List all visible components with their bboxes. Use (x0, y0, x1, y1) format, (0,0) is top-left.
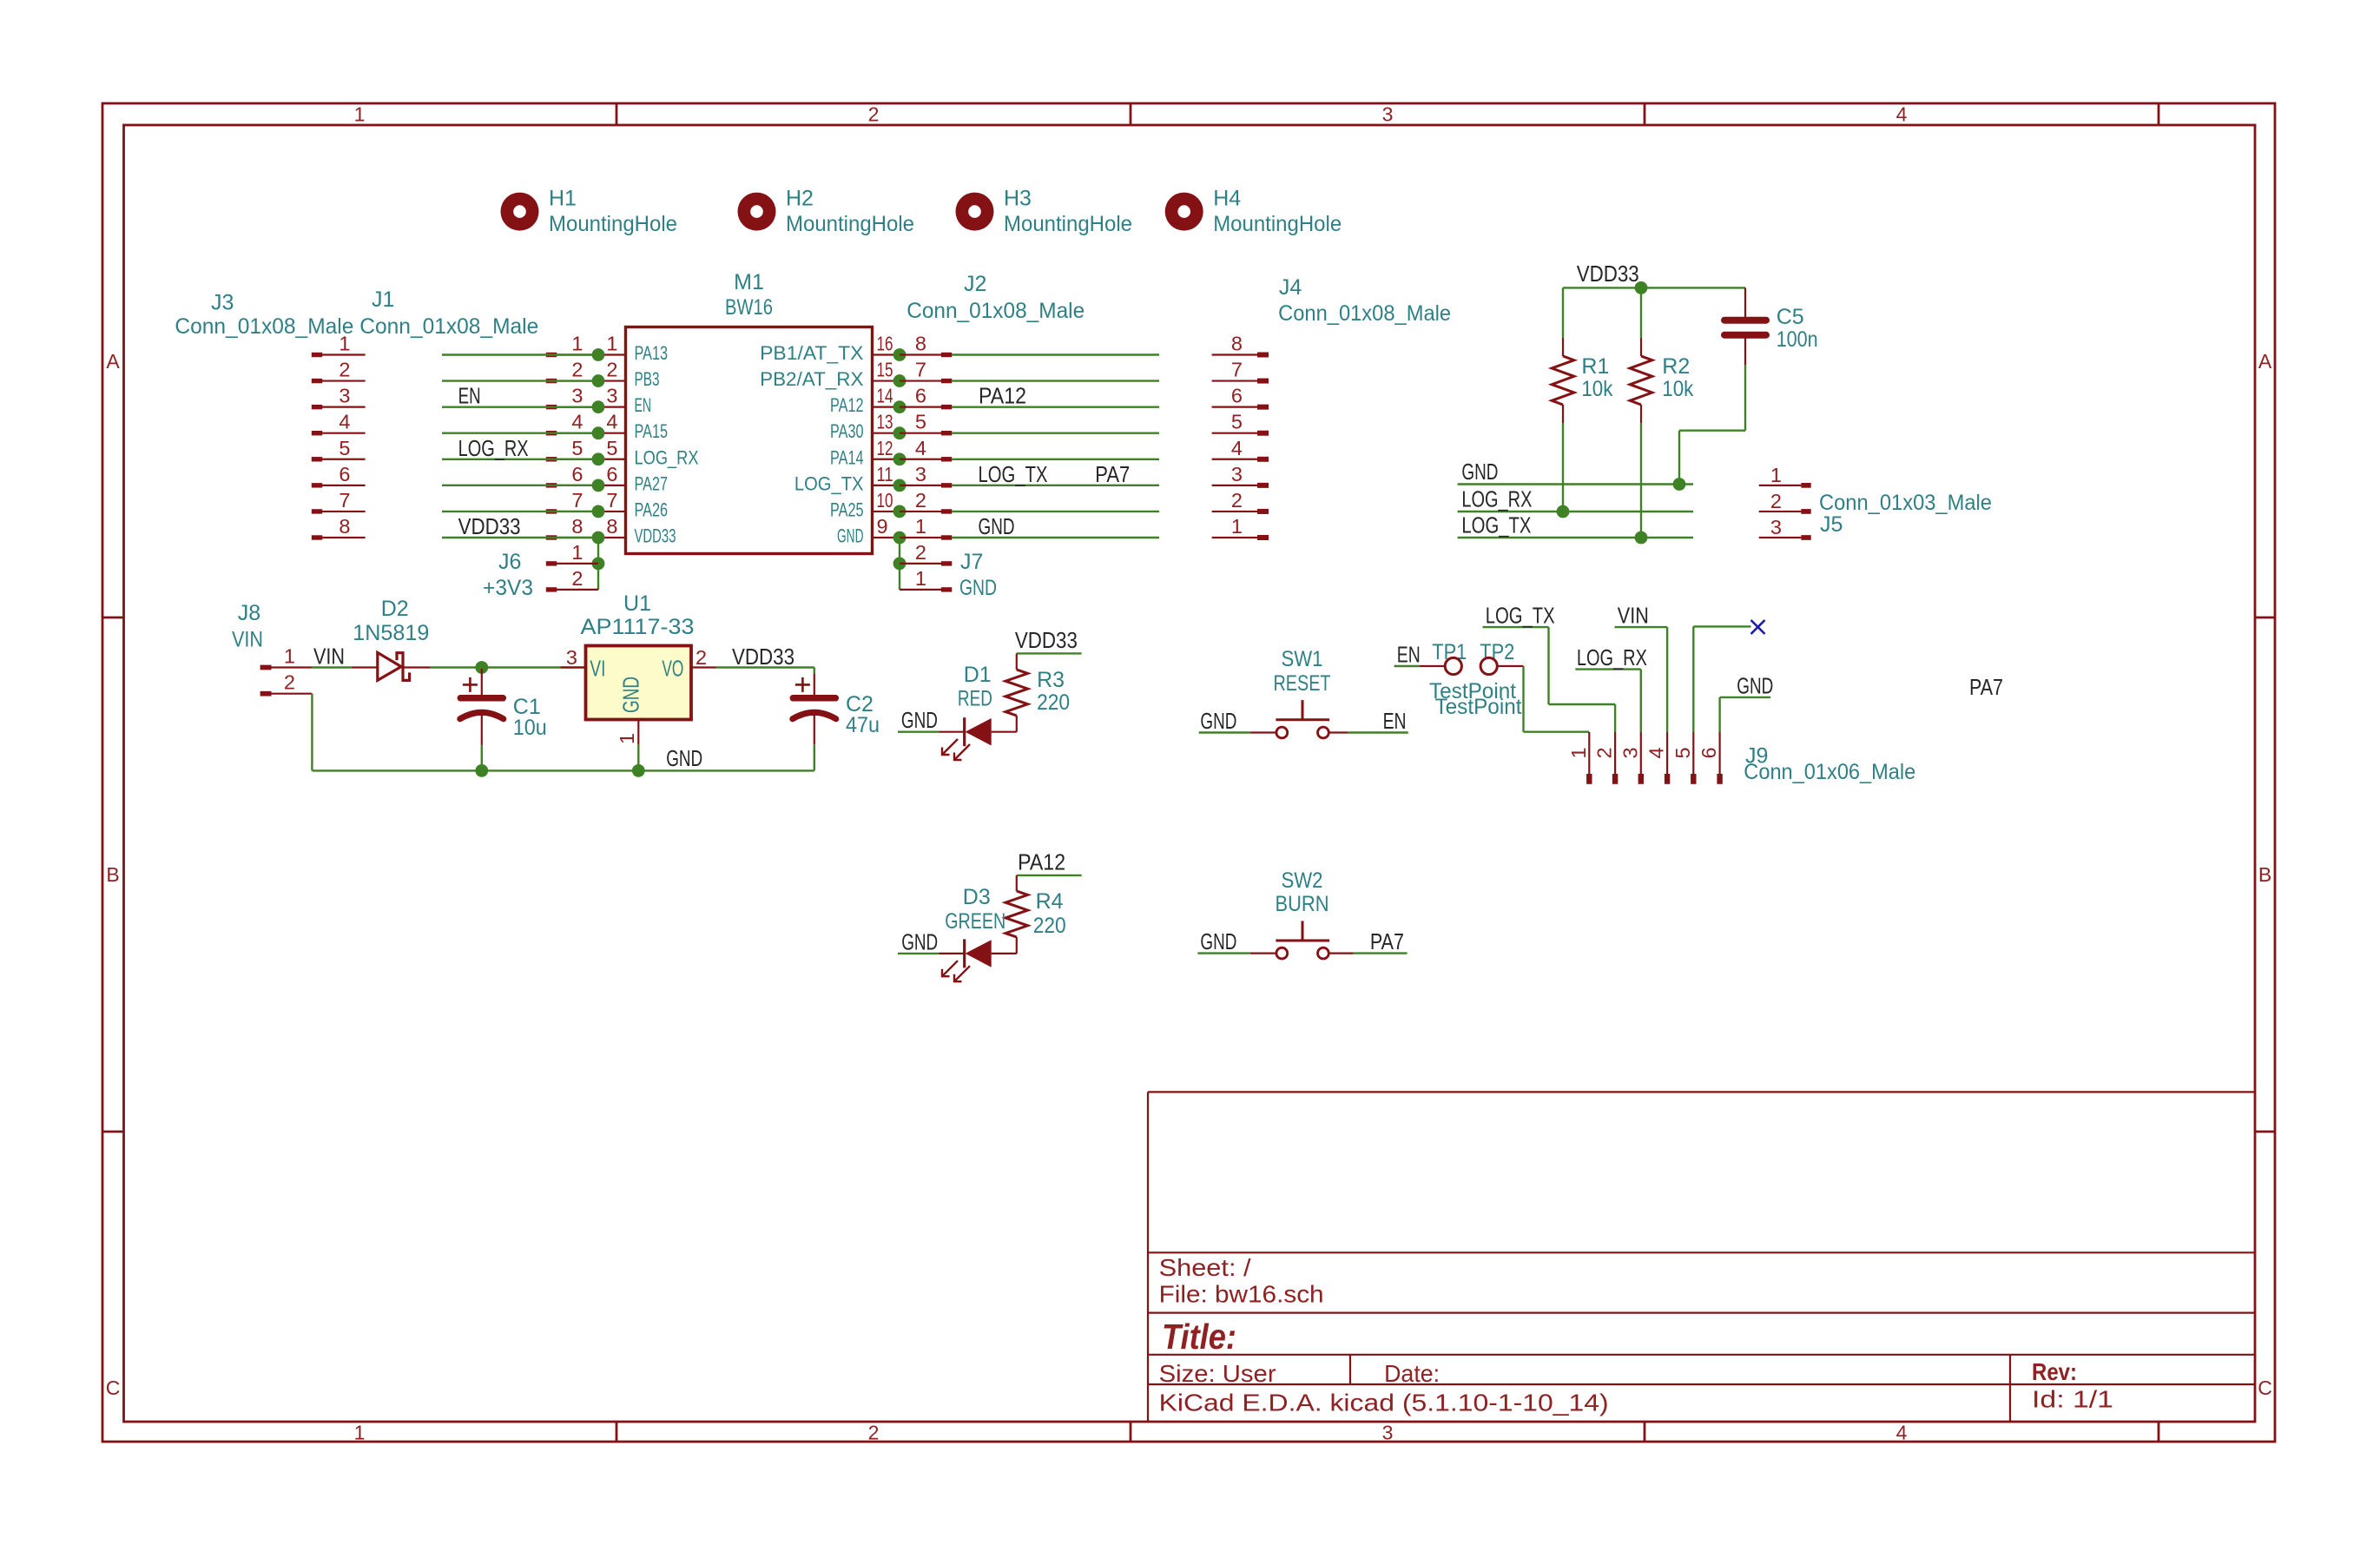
svg-text:1: 1 (1231, 515, 1243, 538)
svg-text:EN: EN (1397, 642, 1421, 668)
svg-text:D1: D1 (964, 663, 992, 687)
svg-text:6: 6 (606, 463, 617, 485)
svg-text:LOG_TX: LOG_TX (794, 472, 864, 494)
svg-text:B: B (106, 863, 119, 886)
wire GND to SW2 (1197, 952, 1249, 954)
svg-text:R3: R3 (1037, 668, 1065, 692)
svg-text:LOG_RX: LOG_RX (635, 446, 699, 468)
wire SW2 to PA7 (1354, 952, 1408, 954)
svg-text:EN: EN (635, 394, 652, 416)
svg-text:2: 2 (915, 541, 926, 564)
svg-text:Conn_01x08_Male: Conn_01x08_Male (907, 299, 1085, 323)
svg-text:4: 4 (1896, 1422, 1908, 1444)
svg-text:Conn_01x08_Male: Conn_01x08_Male (1278, 301, 1451, 326)
connector J8 VIN (232, 601, 312, 697)
svg-text:J3: J3 (211, 291, 234, 315)
svg-text:8: 8 (339, 515, 350, 538)
svg-text:2: 2 (696, 646, 707, 669)
svg-text:2: 2 (1231, 489, 1243, 512)
svg-text:5: 5 (571, 437, 583, 459)
svg-text:J5: J5 (1820, 512, 1843, 537)
svg-text:PA12: PA12 (830, 394, 864, 416)
svg-text:1: 1 (1567, 747, 1590, 758)
switch SW1 RESET (1250, 647, 1348, 738)
connector J5 Conn_01x03_Male (1759, 464, 1992, 540)
svg-text:7: 7 (606, 489, 617, 512)
wire VIN (312, 666, 351, 668)
svg-text:8: 8 (606, 515, 617, 538)
svg-text:Conn_01x08_Male: Conn_01x08_Male (175, 314, 353, 339)
svg-text:H4: H4 (1213, 187, 1241, 211)
mounting hole H1 (501, 187, 678, 236)
svg-text:16: 16 (877, 333, 893, 355)
wire LOG_RX stub (1458, 511, 1693, 512)
capacitor C5 100n (1724, 287, 1818, 430)
svg-text:2: 2 (868, 103, 880, 126)
svg-text:PA12: PA12 (1018, 849, 1065, 875)
svg-text:GND: GND (959, 576, 997, 600)
svg-text:10u: 10u (513, 716, 547, 740)
svg-text:3: 3 (606, 385, 617, 407)
svg-text:1: 1 (606, 333, 617, 355)
svg-text:RED: RED (958, 687, 992, 711)
svg-text:C: C (106, 1377, 121, 1399)
svg-text:A: A (106, 350, 120, 373)
resistor R3 220 (992, 627, 1082, 732)
svg-text:4: 4 (1231, 437, 1243, 459)
svg-text:MountingHole: MountingHole (1004, 212, 1132, 236)
svg-text:6: 6 (915, 385, 926, 407)
svg-text:R2: R2 (1662, 354, 1690, 379)
J3 pins 1-8 (312, 333, 366, 540)
capacitor C2 47u (793, 674, 880, 770)
svg-text:VO: VO (662, 655, 683, 681)
resistor R4 220 (992, 849, 1082, 954)
svg-text:1: 1 (571, 541, 583, 564)
J4 pins 8-1 (1212, 333, 1269, 540)
svg-text:PB2/AT_RX: PB2/AT_RX (760, 368, 864, 390)
svg-text:D3: D3 (963, 885, 991, 909)
svg-text:GND: GND (1737, 672, 1773, 698)
wire GND to SW1 (1199, 731, 1250, 733)
svg-text:2: 2 (339, 359, 350, 381)
svg-text:BW16: BW16 (725, 295, 773, 320)
svg-text:3: 3 (571, 385, 583, 407)
svg-text:C5: C5 (1777, 305, 1804, 329)
svg-text:10: 10 (877, 489, 893, 512)
wire C5 to GND stub (1673, 431, 1745, 491)
svg-text:GND: GND (901, 707, 938, 733)
svg-text:9: 9 (877, 515, 888, 538)
svg-text:J1: J1 (372, 287, 394, 312)
svg-text:PA25: PA25 (830, 498, 864, 520)
svg-text:TP1: TP1 (1432, 640, 1467, 664)
connector J7 (GND pins) (893, 538, 997, 600)
svg-text:GND: GND (979, 513, 1015, 539)
svg-text:File: bw16.sch: File: bw16.sch (1159, 1280, 1324, 1307)
svg-text:M1: M1 (734, 270, 764, 294)
svg-text:220: 220 (1033, 914, 1066, 938)
U1 pin 1 GND (616, 677, 645, 777)
svg-text:PA30: PA30 (830, 420, 864, 442)
svg-text:4: 4 (1645, 747, 1668, 758)
svg-text:4: 4 (1896, 103, 1908, 126)
svg-text:2: 2 (915, 489, 926, 512)
svg-text:3: 3 (339, 385, 350, 407)
wire TP2 to J9.1 (1524, 666, 1590, 732)
svg-text:4: 4 (915, 437, 926, 459)
svg-text:+3V3: +3V3 (483, 576, 533, 600)
svg-text:J6: J6 (498, 550, 521, 574)
svg-text:PA13: PA13 (635, 342, 669, 364)
mounting hole H2 (738, 187, 915, 236)
wire LOG_RX to J9.3 (1575, 670, 1641, 732)
svg-text:MountingHole: MountingHole (786, 212, 914, 236)
wire LOG_TX stub (1458, 537, 1693, 538)
svg-text:7: 7 (339, 489, 350, 512)
svg-text:2: 2 (284, 671, 295, 694)
mounting hole H4 (1165, 187, 1342, 236)
svg-text:J8: J8 (238, 601, 260, 625)
svg-text:PA15: PA15 (635, 420, 669, 442)
resistor R1 10k (1552, 287, 1613, 518)
diode D2 1N5819 (352, 597, 431, 680)
svg-text:5: 5 (339, 437, 350, 459)
resistor R2 10k (1630, 287, 1694, 544)
svg-text:1: 1 (339, 333, 350, 355)
svg-text:RESET: RESET (1274, 671, 1331, 696)
svg-text:AP1117-33: AP1117-33 (581, 615, 695, 639)
svg-text:A: A (2258, 350, 2272, 373)
svg-text:Id: 1/1: Id: 1/1 (2032, 1386, 2113, 1413)
U1 pin 2 VO (662, 646, 716, 681)
svg-text:6: 6 (1698, 747, 1720, 758)
svg-text:Sheet: /: Sheet: / (1159, 1254, 1251, 1281)
wire GND stub (1458, 483, 1693, 485)
svg-text:PA7: PA7 (1370, 928, 1404, 954)
switch SW2 BURN (1250, 868, 1354, 959)
connector J9 Conn_01x06_Male (1567, 732, 1916, 784)
svg-text:VDD33: VDD33 (635, 525, 676, 546)
svg-text:7: 7 (1231, 359, 1243, 381)
module M1 BW16 (592, 270, 907, 554)
svg-text:1: 1 (915, 567, 926, 590)
svg-text:13: 13 (877, 411, 893, 433)
connector J2 Conn_01x08_Male (900, 272, 1085, 540)
svg-text:SW1: SW1 (1282, 647, 1323, 671)
svg-text:TestPoint: TestPoint (1435, 695, 1522, 719)
svg-text:VIN: VIN (232, 628, 263, 652)
svg-text:U1: U1 (623, 591, 651, 616)
svg-text:LOG_TX: LOG_TX (979, 461, 1048, 487)
connector J3 Conn_01x08_Male (175, 291, 365, 540)
svg-text:2: 2 (571, 359, 583, 381)
svg-text:TP2: TP2 (1480, 640, 1514, 664)
wire J2 row stubs (952, 355, 1159, 538)
svg-text:VI: VI (590, 655, 605, 681)
svg-text:2: 2 (868, 1422, 880, 1444)
svg-text:J2: J2 (964, 272, 986, 296)
svg-text:H3: H3 (1004, 187, 1032, 211)
node VDD33 (top rail) (1563, 261, 1745, 294)
svg-text:12: 12 (877, 437, 893, 459)
svg-text:GND: GND (901, 929, 938, 955)
svg-text:2: 2 (1593, 747, 1616, 758)
LED D3 GREEN (939, 885, 1006, 981)
svg-text:H1: H1 (549, 187, 577, 211)
svg-text:EN: EN (1383, 708, 1407, 734)
connector J1 Conn_01x08_Male (359, 287, 598, 540)
svg-text:VDD33: VDD33 (1015, 627, 1078, 653)
svg-text:R1: R1 (1581, 354, 1609, 379)
wire GND to J9.6 (1720, 697, 1771, 732)
svg-text:H2: H2 (786, 187, 814, 211)
svg-text:3: 3 (1382, 1422, 1394, 1444)
svg-text:PB1/AT_TX: PB1/AT_TX (760, 342, 864, 364)
svg-text:KiCad E.D.A. kicad (5.1.10-1-: KiCad E.D.A. kicad (5.1.10-1-10_14) (1159, 1390, 1609, 1416)
svg-text:GND: GND (1461, 459, 1498, 485)
svg-text:1: 1 (1770, 464, 1782, 486)
svg-text:PA7: PA7 (1969, 674, 2003, 700)
svg-text:SW2: SW2 (1282, 868, 1323, 893)
wire J1 row stubs (442, 355, 598, 538)
svg-text:MountingHole: MountingHole (1213, 212, 1342, 236)
wire GND to D1 (898, 731, 939, 733)
svg-text:J7: J7 (960, 550, 983, 574)
svg-text:Conn_01x03_Male: Conn_01x03_Male (1819, 491, 1992, 515)
capacitor C1 10u (460, 669, 547, 777)
svg-text:3: 3 (1382, 103, 1394, 126)
svg-text:3: 3 (1619, 747, 1641, 758)
svg-text:PA27: PA27 (635, 472, 669, 494)
svg-text:2: 2 (571, 567, 583, 590)
svg-text:14: 14 (877, 385, 893, 407)
svg-text:PA12: PA12 (979, 383, 1026, 409)
svg-text:6: 6 (1231, 385, 1243, 407)
svg-text:8: 8 (571, 515, 583, 538)
svg-text:GND: GND (1200, 708, 1236, 734)
svg-text:J4: J4 (1279, 275, 1302, 300)
wire LOG_TX to J9.2 (1483, 627, 1616, 732)
svg-text:Rev:: Rev: (2032, 1358, 2077, 1385)
svg-text:Date:: Date: (1384, 1360, 1440, 1387)
svg-text:2: 2 (1770, 490, 1782, 512)
wire GND rail (312, 769, 814, 771)
svg-text:LOG_RX: LOG_RX (458, 435, 529, 461)
svg-text:5: 5 (1231, 411, 1243, 433)
svg-text:D2: D2 (381, 597, 409, 621)
svg-text:GND: GND (1200, 928, 1236, 954)
svg-text:VIN: VIN (1618, 603, 1649, 629)
svg-text:Title:: Title: (1162, 1317, 1236, 1357)
LED D1 RED (939, 663, 992, 760)
svg-text:GND: GND (618, 677, 644, 713)
svg-text:5: 5 (606, 437, 617, 459)
svg-text:4: 4 (606, 411, 617, 433)
J2 pins 8-1 (900, 333, 952, 540)
svg-text:1N5819: 1N5819 (353, 621, 429, 645)
svg-text:VDD33: VDD33 (1577, 261, 1639, 287)
wire GND to D3 (898, 953, 939, 954)
svg-text:7: 7 (571, 489, 583, 512)
svg-text:PA14: PA14 (830, 446, 864, 468)
svg-text:GND: GND (837, 525, 864, 546)
wire J9.5 no-connect (1693, 626, 1750, 732)
regulator U1 AP1117-33 (561, 591, 717, 777)
svg-text:11: 11 (877, 463, 893, 485)
svg-text:B: B (2258, 863, 2271, 886)
svg-text:LOG_RX: LOG_RX (1461, 486, 1532, 512)
svg-text:GREEN: GREEN (945, 909, 1005, 934)
svg-text:VDD33: VDD33 (458, 513, 521, 539)
svg-text:LOG_TX: LOG_TX (1486, 603, 1555, 629)
svg-text:2: 2 (606, 359, 617, 381)
wire J8.2 to GND rail (311, 694, 313, 771)
svg-text:10k: 10k (1662, 377, 1693, 401)
svg-text:4: 4 (571, 411, 583, 433)
wire VIN to J9.4 (1615, 627, 1668, 732)
svg-text:1: 1 (915, 515, 926, 538)
connector J6 +3V3 (483, 538, 604, 600)
svg-text:1: 1 (571, 333, 583, 355)
svg-text:PB3: PB3 (635, 368, 660, 390)
M1 pin junctions (592, 348, 907, 544)
svg-text:3: 3 (566, 646, 577, 669)
svg-text:Conn_01x08_Male: Conn_01x08_Male (359, 314, 538, 339)
svg-text:15: 15 (877, 359, 893, 381)
svg-text:220: 220 (1037, 690, 1070, 715)
svg-text:10k: 10k (1581, 377, 1612, 401)
M1 right pins 16-9 (760, 333, 900, 547)
J1 pins 1-8 (546, 333, 598, 540)
svg-text:LOG_RX: LOG_RX (1577, 644, 1647, 670)
wire SW1 to EN (1348, 731, 1408, 733)
svg-text:BURN: BURN (1276, 892, 1329, 916)
svg-text:1: 1 (354, 1422, 366, 1444)
svg-text:C: C (2258, 1377, 2272, 1399)
svg-text:VIN: VIN (313, 644, 345, 670)
svg-text:EN: EN (458, 383, 481, 409)
svg-text:8: 8 (915, 333, 926, 355)
test point TP2 (1435, 640, 1524, 719)
svg-text:GND: GND (666, 745, 702, 771)
svg-text:3: 3 (915, 463, 926, 485)
svg-text:3: 3 (1231, 463, 1243, 485)
svg-text:100n: 100n (1777, 327, 1818, 352)
svg-text:R4: R4 (1036, 889, 1064, 914)
svg-text:6: 6 (571, 463, 583, 485)
svg-text:LOG_TX: LOG_TX (1461, 512, 1531, 538)
svg-text:1: 1 (616, 733, 638, 744)
svg-text:5: 5 (915, 411, 926, 433)
connector J4 Conn_01x08_Male (1212, 275, 1452, 540)
svg-text:Conn_01x06_Male: Conn_01x06_Male (1744, 760, 1915, 784)
svg-text:Size: User: Size: User (1159, 1360, 1276, 1387)
wire VDD33 out (716, 668, 814, 675)
svg-text:VDD33: VDD33 (732, 644, 794, 670)
svg-text:4: 4 (339, 411, 350, 433)
svg-text:1: 1 (354, 103, 366, 126)
M1 left pins 1-8 (598, 333, 699, 547)
svg-text:PA7: PA7 (1095, 461, 1130, 487)
svg-text:1: 1 (284, 645, 295, 668)
test point TP1 (1394, 640, 1516, 703)
U1 pin 3 VI (561, 646, 606, 681)
svg-text:8: 8 (1231, 333, 1243, 355)
svg-text:5: 5 (1671, 747, 1694, 758)
svg-text:PA26: PA26 (635, 498, 669, 520)
mounting hole H3 (956, 187, 1133, 236)
wire D2 to C1/U1 (431, 661, 586, 674)
svg-text:7: 7 (915, 359, 926, 381)
no-connect X (1751, 620, 1765, 634)
svg-text:47u: 47u (846, 713, 880, 737)
svg-text:3: 3 (1770, 516, 1782, 538)
svg-text:MountingHole: MountingHole (549, 212, 677, 236)
svg-text:6: 6 (339, 463, 350, 485)
